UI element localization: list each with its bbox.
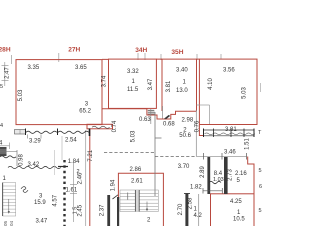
svg-text:2.16: 2.16 bbox=[235, 171, 247, 177]
dimension line 1.82 bbox=[203, 190, 222, 192]
room 35Н contour (red) bbox=[162, 59, 197, 111]
svg-text:3.47: 3.47 bbox=[148, 78, 154, 90]
svg-text:11.5: 11.5 bbox=[127, 87, 139, 93]
gray vline near 0.68 bbox=[162, 106, 164, 119]
wall bar left of stair2 bbox=[107, 195, 110, 226]
svg-text:2.98: 2.98 bbox=[182, 118, 194, 124]
svg-text:2.61: 2.61 bbox=[131, 179, 143, 185]
bottom right room contour (red) bbox=[211, 194, 255, 228]
svg-text:1.03: 1.03 bbox=[213, 177, 224, 183]
svg-text:3.32: 3.32 bbox=[127, 69, 139, 75]
svg-text:28Н: 28Н bbox=[0, 47, 11, 54]
svg-text:1.61: 1.61 bbox=[66, 188, 78, 194]
svg-text:1.84: 1.84 bbox=[68, 159, 80, 165]
red vline below big room bottom-left bbox=[199, 125, 203, 136]
svg-text:4.57: 4.57 bbox=[52, 194, 58, 206]
dashed boundary line right bbox=[155, 156, 196, 158]
short dim hline left bbox=[0, 150, 17, 152]
faint vline above wall bbox=[61, 136, 63, 160]
svg-text:15.9: 15.9 bbox=[34, 200, 46, 206]
svg-text:34Н: 34Н bbox=[135, 47, 147, 54]
svg-text:5.03: 5.03 bbox=[18, 89, 24, 101]
wall bar 2 bbox=[117, 197, 119, 226]
svg-text:5: 5 bbox=[259, 208, 262, 214]
wall branch bbox=[155, 137, 162, 139]
dashed dark wall vertical x64.5 bbox=[63, 160, 65, 226]
gray vline short near 0.63 bbox=[150, 109, 152, 124]
black hatched block near door bbox=[148, 110, 155, 114]
vline x17 bbox=[16, 150, 18, 166]
wall band tick bbox=[57, 129, 59, 136]
gray line beside red vertical bbox=[85, 130, 87, 226]
wall band below big right room bbox=[204, 129, 255, 138]
svg-text:1.94: 1.94 bbox=[111, 179, 117, 191]
diagonal connector bbox=[113, 195, 119, 199]
svg-text:4.2: 4.2 bbox=[194, 213, 203, 219]
svg-text:2.86: 2.86 bbox=[130, 167, 142, 173]
svg-text:3.40: 3.40 bbox=[176, 68, 188, 74]
svg-text:2.37: 2.37 bbox=[100, 204, 106, 216]
gray vline right of room2 bbox=[195, 110, 197, 157]
dashed boundary line left bbox=[104, 152, 155, 154]
exterior wall band below room 27Н: masonry part bbox=[15, 129, 26, 136]
narrow wall left of 8.4 room bbox=[207, 157, 210, 194]
svg-text:0.98: 0.98 bbox=[19, 154, 25, 166]
svg-text:35Н: 35Н bbox=[171, 49, 183, 56]
wall band end tick bbox=[89, 129, 91, 137]
svg-text:5.03: 5.03 bbox=[242, 87, 248, 99]
svg-text:3.35: 3.35 bbox=[28, 65, 40, 71]
svg-text:1 5: 1 5 bbox=[73, 207, 79, 215]
dark wall block far left bbox=[0, 147, 7, 156]
faint vline x54.4 bbox=[53, 150, 55, 175]
dimension line column x73.3 bbox=[72, 163, 74, 222]
svg-text:4.25: 4.25 bbox=[230, 199, 242, 205]
svg-text:3.42: 3.42 bbox=[28, 162, 40, 168]
svg-text:3.46: 3.46 bbox=[224, 150, 236, 156]
svg-text:3.47: 3.47 bbox=[36, 219, 48, 225]
svg-text:3.65: 3.65 bbox=[75, 65, 87, 71]
svg-text:3.29: 3.29 bbox=[29, 139, 41, 145]
red jog right side bbox=[248, 157, 254, 194]
svg-text:5: 5 bbox=[259, 168, 262, 174]
dimension line 3.46 bbox=[197, 155, 247, 157]
svg-text:2.47: 2.47 bbox=[4, 67, 10, 79]
svg-text:5.03: 5.03 bbox=[131, 130, 137, 142]
small dim line left bbox=[0, 145, 10, 147]
left dimension line bbox=[4, 62, 6, 86]
stairwell 1 wall edge bbox=[2, 183, 4, 216]
closet notch lines bbox=[209, 105, 211, 124]
svg-text:3.56: 3.56 bbox=[223, 68, 235, 74]
svg-text:04: 04 bbox=[9, 221, 15, 226]
stairwell 2 stringer double line bbox=[135, 190, 139, 212]
big right room contour (red) bbox=[199, 59, 257, 124]
svg-text:3.81: 3.81 bbox=[166, 80, 172, 92]
dimension tick marks above top contour bbox=[12, 53, 222, 64]
svg-text:4: 4 bbox=[0, 123, 3, 129]
corridor step contour near 0.63 door (red) bbox=[102, 109, 197, 119]
red vertical wall line centre-left bbox=[89, 129, 91, 226]
gray tick right edge bbox=[260, 83, 262, 92]
svg-text:2: 2 bbox=[77, 169, 80, 175]
svg-text:6: 6 bbox=[259, 184, 262, 190]
wall bar bottom right bbox=[185, 193, 188, 226]
wall squiggle segment 2 bbox=[58, 131, 89, 133]
door swing ticks bbox=[165, 115, 170, 119]
red wall rect under room 27Н right part bbox=[87, 124, 113, 129]
svg-text:7.21: 7.21 bbox=[88, 149, 94, 161]
room 34Н contour (red) bbox=[109, 59, 157, 108]
svg-text:2.89: 2.89 bbox=[200, 166, 206, 178]
small squiggle segment upper bbox=[0, 156, 16, 158]
svg-text:2.70: 2.70 bbox=[178, 203, 184, 215]
wall squiggle segment 1 bbox=[26, 131, 57, 133]
break symbol S bbox=[21, 187, 28, 193]
svg-text:1.51: 1.51 bbox=[244, 138, 250, 150]
svg-text:1.82: 1.82 bbox=[190, 185, 202, 191]
svg-text:65.2: 65.2 bbox=[79, 109, 91, 115]
svg-text:0.76: 0.76 bbox=[194, 120, 200, 132]
svg-text:4.10: 4.10 bbox=[208, 78, 214, 90]
svg-text:5: 5 bbox=[0, 84, 3, 90]
squiggle wall 3.42 bbox=[8, 166, 61, 168]
stairwell 2 bottom-centre bbox=[120, 190, 158, 212]
svg-text:0.74: 0.74 bbox=[112, 120, 118, 132]
dark tick crossing wall top bbox=[58, 166, 68, 168]
svg-text:3.70: 3.70 bbox=[178, 164, 190, 170]
hatch inside red wall rect bbox=[92, 126, 110, 128]
narrow wall right of 8.4 room bbox=[224, 157, 228, 194]
stairwell 1 arrow bbox=[8, 199, 10, 212]
svg-text:27Н: 27Н bbox=[68, 47, 80, 54]
svg-text:0.68: 0.68 bbox=[163, 121, 175, 127]
svg-text:2.54: 2.54 bbox=[65, 138, 77, 144]
svg-text:0.63: 0.63 bbox=[139, 117, 151, 123]
room 27Н contour (red) bbox=[16, 60, 102, 125]
stairwell 2 arrow bbox=[146, 202, 148, 210]
svg-text:50.6: 50.6 bbox=[179, 133, 191, 139]
svg-text:3.74: 3.74 bbox=[101, 75, 107, 87]
gray vline bottom right bbox=[198, 194, 200, 226]
svg-text:2.73: 2.73 bbox=[227, 169, 233, 181]
svg-text:05: 05 bbox=[3, 221, 9, 226]
red bridge segments on top contour bbox=[102, 58, 199, 60]
svg-text:13.0: 13.0 bbox=[176, 88, 188, 94]
svg-text:10.5: 10.5 bbox=[233, 217, 245, 223]
centre wall vertical bbox=[154, 112, 156, 196]
stairwell 1 bottom-left bbox=[3, 183, 16, 216]
red corner bottom-centre bbox=[118, 173, 163, 226]
